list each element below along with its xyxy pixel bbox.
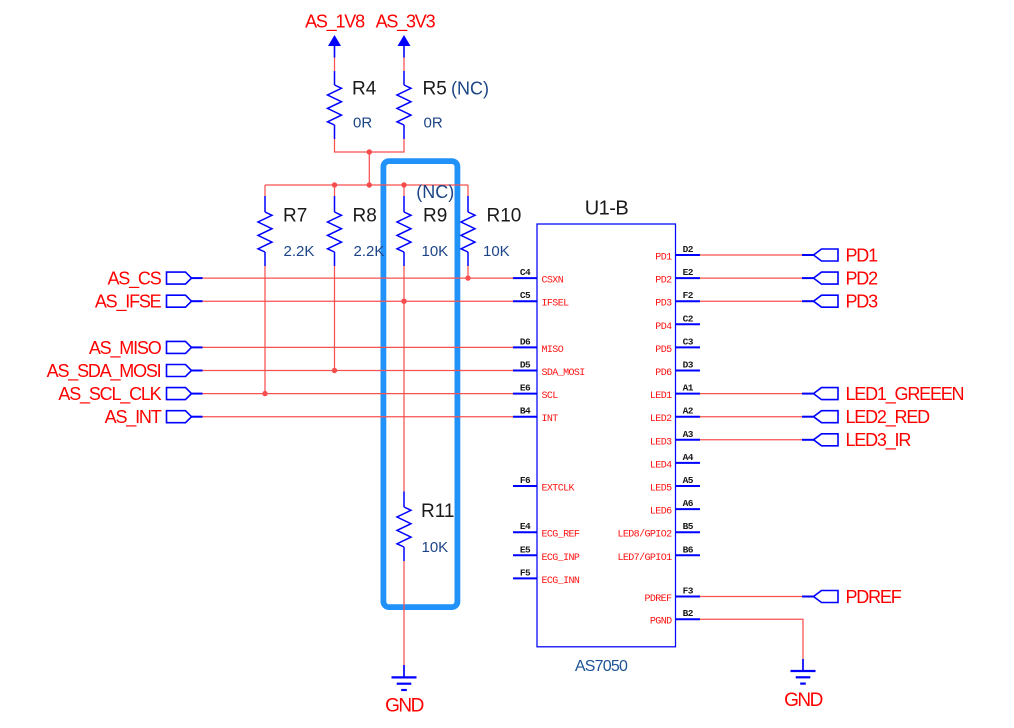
svg-text:ECG_REF: ECG_REF <box>542 530 580 541</box>
svg-text:PDREF: PDREF <box>644 594 672 605</box>
svg-text:D3: D3 <box>683 360 694 371</box>
svg-text:AS7050: AS7050 <box>575 658 628 675</box>
svg-text:AS_3V3: AS_3V3 <box>376 12 436 33</box>
svg-text:AS_1V8: AS_1V8 <box>305 12 365 33</box>
svg-text:D2: D2 <box>683 244 694 255</box>
svg-text:10K: 10K <box>422 539 449 556</box>
svg-text:F2: F2 <box>683 290 694 301</box>
svg-text:LED8/GPIO2: LED8/GPIO2 <box>617 529 672 541</box>
svg-text:IFSEL: IFSEL <box>542 299 570 310</box>
svg-text:PD6: PD6 <box>655 368 672 379</box>
svg-text:A5: A5 <box>683 475 694 486</box>
svg-text:B2: B2 <box>683 608 694 619</box>
svg-text:R10: R10 <box>487 205 522 226</box>
svg-text:PD1: PD1 <box>655 253 672 264</box>
svg-text:AS_INT: AS_INT <box>105 407 162 428</box>
svg-text:PD5: PD5 <box>655 345 672 356</box>
svg-text:ECG_INP: ECG_INP <box>542 553 580 564</box>
svg-text:GND: GND <box>385 696 424 717</box>
svg-text:C4: C4 <box>520 267 531 278</box>
svg-text:2.2K: 2.2K <box>354 243 385 260</box>
svg-text:10K: 10K <box>483 243 510 260</box>
svg-text:LED7/GPIO1: LED7/GPIO1 <box>617 552 672 564</box>
svg-text:E2: E2 <box>683 267 694 278</box>
svg-text:C5: C5 <box>520 290 531 301</box>
svg-text:2.2K: 2.2K <box>284 243 315 260</box>
svg-text:F5: F5 <box>520 567 531 578</box>
svg-text:R11: R11 <box>421 501 454 522</box>
svg-text:E6: E6 <box>520 383 531 394</box>
svg-text:AS_MISO: AS_MISO <box>89 338 162 359</box>
svg-text:PD1: PD1 <box>846 245 879 265</box>
svg-text:E4: E4 <box>520 521 531 532</box>
svg-text:D5: D5 <box>520 360 531 371</box>
svg-text:PDREF: PDREF <box>846 587 902 607</box>
svg-text:GND: GND <box>784 690 823 711</box>
svg-text:B4: B4 <box>520 406 531 417</box>
svg-text:PD2: PD2 <box>846 269 879 289</box>
svg-text:LED5: LED5 <box>650 484 672 495</box>
svg-text:C2: C2 <box>683 313 694 324</box>
svg-text:F6: F6 <box>520 475 531 486</box>
svg-text:LED3: LED3 <box>650 437 672 448</box>
svg-text:F3: F3 <box>683 586 694 597</box>
svg-text:LED4: LED4 <box>650 460 672 471</box>
svg-text:LED2_RED: LED2_RED <box>846 407 931 428</box>
svg-text:R4: R4 <box>352 78 377 99</box>
svg-text:(NC): (NC) <box>451 78 489 98</box>
svg-text:PD3: PD3 <box>655 299 672 310</box>
svg-text:E5: E5 <box>520 544 531 555</box>
svg-text:PD2: PD2 <box>655 276 672 287</box>
svg-text:C3: C3 <box>683 336 694 347</box>
svg-text:0R: 0R <box>424 114 443 131</box>
svg-text:B6: B6 <box>683 544 694 555</box>
svg-text:LED2: LED2 <box>650 414 672 425</box>
svg-text:AS_SDA_MOSI: AS_SDA_MOSI <box>47 361 161 382</box>
svg-text:R5: R5 <box>423 78 447 99</box>
svg-text:D6: D6 <box>520 336 531 347</box>
svg-text:PD3: PD3 <box>846 292 879 312</box>
svg-text:R9: R9 <box>423 205 447 226</box>
svg-text:U1-B: U1-B <box>585 197 629 219</box>
svg-text:CSXN: CSXN <box>542 276 564 287</box>
svg-text:10K: 10K <box>422 243 449 260</box>
svg-text:MISO: MISO <box>542 345 564 356</box>
svg-text:R7: R7 <box>283 205 307 226</box>
svg-text:(NC): (NC) <box>416 182 454 202</box>
svg-text:LED1: LED1 <box>650 391 672 402</box>
svg-text:A1: A1 <box>683 383 694 394</box>
svg-text:ECG_INN: ECG_INN <box>542 576 580 587</box>
svg-text:PGND: PGND <box>650 617 672 628</box>
svg-text:LED1_GREEEN: LED1_GREEEN <box>846 384 964 405</box>
svg-text:A2: A2 <box>683 406 694 417</box>
svg-text:R8: R8 <box>353 205 377 226</box>
svg-text:PD4: PD4 <box>655 322 672 333</box>
svg-text:A6: A6 <box>683 498 694 509</box>
svg-text:B5: B5 <box>683 521 694 532</box>
svg-text:EXTCLK: EXTCLK <box>542 484 575 495</box>
svg-text:0R: 0R <box>353 114 372 131</box>
svg-text:A4: A4 <box>683 452 694 463</box>
svg-text:INT: INT <box>542 414 559 425</box>
svg-text:AS_CS: AS_CS <box>107 269 161 290</box>
svg-text:LED3_IR: LED3_IR <box>846 430 912 451</box>
svg-text:SCL: SCL <box>542 391 559 402</box>
svg-text:LED6: LED6 <box>650 507 672 518</box>
svg-text:A3: A3 <box>683 429 694 440</box>
svg-text:AS_SCL_CLK: AS_SCL_CLK <box>58 384 161 405</box>
svg-text:SDA_MOSI: SDA_MOSI <box>542 368 585 379</box>
svg-text:AS_IFSE: AS_IFSE <box>95 292 162 313</box>
